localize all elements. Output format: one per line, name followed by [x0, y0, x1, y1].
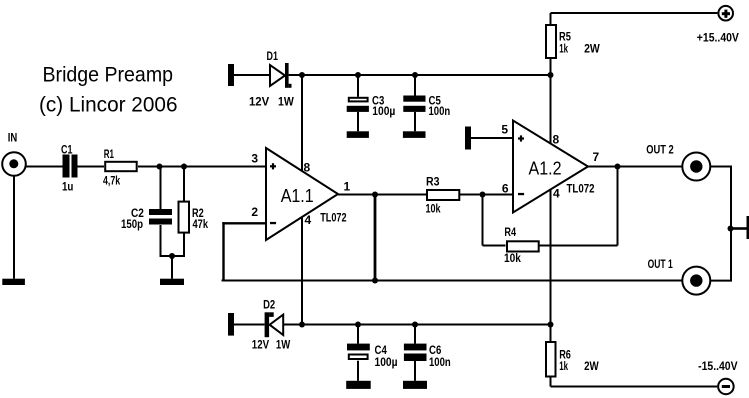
svg-text:10k: 10k — [426, 201, 441, 215]
node junction C2 — [157, 164, 163, 170]
node junction right — [728, 226, 734, 232]
node junction C4 — [355, 322, 361, 328]
ground (C4) — [346, 381, 371, 389]
svg-text:2: 2 — [251, 205, 258, 219]
svg-text:100n: 100n — [429, 104, 451, 118]
svg-text:100µ: 100µ — [375, 355, 398, 369]
node junction R6 — [548, 322, 554, 328]
wire to op-amp pin 3 — [138, 166, 266, 168]
node junction C5 — [412, 72, 418, 78]
node junction C6 — [412, 322, 418, 328]
diode D2 (zener 12V 1W) — [252, 298, 291, 352]
svg-text:R3: R3 — [426, 175, 440, 189]
input connector IN — [2, 131, 26, 176]
diode D1 (zener 12V 1W) — [249, 49, 294, 109]
terminal tab (pin 5 ground) — [465, 127, 471, 150]
wire pin 4 A1.2 — [550, 190, 552, 325]
svg-text:TL072: TL072 — [320, 213, 346, 225]
resistor R3 — [426, 175, 460, 216]
svg-text:D1: D1 — [267, 49, 279, 63]
wire OUT2 right — [710, 167, 731, 281]
node junction — [169, 253, 175, 259]
node junction R2 — [181, 164, 187, 170]
svg-text:+15..40V: +15..40V — [697, 30, 739, 44]
capacitor C3 (100u electrolytic) — [347, 75, 396, 131]
svg-text:A1.2: A1.2 — [529, 159, 562, 179]
wire to right tab — [731, 227, 747, 230]
-V terminal — [698, 359, 738, 394]
svg-text:OUT 1: OUT 1 — [648, 257, 673, 271]
wire R3 to pin 6 — [460, 194, 513, 196]
terminal tab (right ground) — [747, 216, 749, 239]
svg-text:3: 3 — [251, 152, 258, 166]
wire lower rail (A1.1 out to OUT1) — [222, 280, 682, 282]
wire — [78, 166, 105, 168]
svg-text:1u: 1u — [62, 179, 73, 193]
node junction pin 6 — [480, 192, 486, 198]
node junction A1.2 out — [615, 164, 621, 170]
wire — [234, 74, 270, 76]
wire bridge vertical — [374, 195, 377, 281]
wire feedback to pin 2 — [222, 222, 266, 280]
op-amp A1.2 — [501, 121, 599, 213]
wire C2/R2 common — [160, 255, 186, 257]
node junction on lower rail — [372, 278, 378, 284]
svg-text:R4: R4 — [504, 225, 516, 239]
svg-text:4: 4 — [305, 213, 312, 227]
svg-text:2W: 2W — [584, 41, 600, 55]
wire pin 8 A1.1 — [301, 75, 303, 171]
ground (IN) — [2, 176, 25, 285]
node junction C3 — [355, 72, 361, 78]
svg-text:-15..40V: -15..40V — [698, 359, 738, 373]
node junction R5 — [548, 72, 554, 78]
wire negative rail — [283, 324, 550, 326]
svg-text:1W: 1W — [278, 95, 294, 109]
resistor R2 — [179, 167, 209, 258]
svg-text:D2: D2 — [263, 298, 275, 312]
svg-text:150p: 150p — [121, 217, 143, 231]
svg-text:1W: 1W — [276, 338, 291, 352]
capacitor C5 (100n) — [403, 75, 450, 131]
svg-text:12V: 12V — [249, 95, 269, 109]
svg-text:4: 4 — [553, 187, 560, 201]
wire positive rail — [289, 74, 551, 76]
svg-text:IN: IN — [8, 131, 18, 145]
svg-text:1k: 1k — [559, 359, 568, 373]
op-amp A1.1 — [251, 148, 350, 240]
terminal tab (D1 supply) — [228, 64, 234, 86]
node junction output A1.1 — [372, 192, 378, 198]
svg-text:Bridge Preamp: Bridge Preamp — [43, 63, 174, 86]
svg-text:2W: 2W — [584, 359, 599, 373]
svg-text:1k: 1k — [559, 41, 568, 55]
wire pin 4 A1.1 — [301, 217, 303, 325]
wire A1.2 output — [588, 166, 682, 168]
wire input rail — [26, 166, 63, 168]
capacitor C4 (100u electrolytic) — [347, 325, 398, 381]
title — [39, 63, 178, 116]
ground (C2/R2) — [160, 256, 184, 285]
svg-text:TL072: TL072 — [567, 184, 595, 196]
svg-text:100n: 100n — [429, 355, 451, 369]
capacitor C2 — [121, 167, 172, 258]
svg-text:6: 6 — [502, 182, 509, 196]
node junction pin4 A1.1 — [299, 322, 305, 328]
svg-text:OUT 2: OUT 2 — [646, 143, 674, 157]
output connector OUT 2 — [646, 143, 710, 181]
wire A1.1 output to R3 — [338, 194, 426, 196]
terminal tab (D2 supply) — [228, 313, 234, 336]
ground (C5) — [403, 131, 426, 138]
resistor R6 — [546, 325, 599, 387]
output connector OUT 1 — [648, 257, 711, 295]
svg-text:8: 8 — [553, 133, 560, 147]
capacitor C1 — [61, 143, 78, 194]
svg-text:10k: 10k — [504, 251, 521, 265]
wire — [234, 324, 265, 326]
svg-text:47k: 47k — [193, 217, 209, 231]
svg-text:A1.1: A1.1 — [281, 186, 314, 206]
ground (C6) — [403, 381, 427, 389]
wire top supply — [551, 12, 718, 14]
svg-text:R1: R1 — [104, 147, 114, 161]
svg-text:1: 1 — [344, 180, 351, 194]
capacitor C6 (100n) — [404, 325, 451, 381]
svg-text:(c) Lincor 2006: (c) Lincor 2006 — [39, 93, 178, 116]
wire pin 5 — [471, 137, 513, 139]
wire pin 8 A1.2 — [550, 75, 552, 144]
wire bottom supply — [551, 386, 718, 388]
+V terminal — [697, 6, 739, 45]
ground (C3) — [347, 131, 369, 138]
svg-text:12V: 12V — [252, 338, 269, 352]
resistor R1 — [103, 147, 137, 187]
svg-text:100µ: 100µ — [372, 104, 395, 118]
resistor R4 — [483, 167, 618, 266]
svg-text:4,7k: 4,7k — [103, 174, 120, 188]
svg-text:8: 8 — [304, 161, 311, 175]
resistor R5 — [546, 13, 600, 75]
svg-text:5: 5 — [501, 123, 508, 137]
svg-text:7: 7 — [593, 150, 600, 164]
svg-text:C1: C1 — [61, 143, 73, 157]
node junction pin8 A1.1 — [299, 72, 305, 78]
